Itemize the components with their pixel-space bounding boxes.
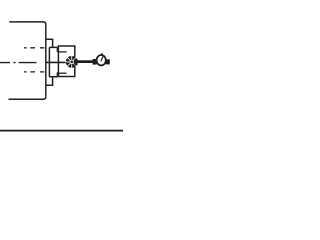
headstock front face bbox=[45, 24, 47, 97]
mandrel hub bbox=[75, 59, 78, 66]
chuck jaw star wheel bbox=[65, 55, 77, 68]
spindle flange bottom bbox=[46, 77, 53, 85]
hidden bore line upper bbox=[24, 47, 44, 49]
ground line bbox=[0, 130, 123, 132]
spindle flange top bbox=[46, 39, 53, 47]
centerline dash-dot bbox=[0, 62, 37, 64]
hidden bore line lower bbox=[24, 71, 44, 73]
spindle nose top line bbox=[57, 51, 66, 53]
dial top stub bbox=[101, 53, 102, 55]
spindle nose bottom line bbox=[57, 72, 66, 74]
chuck body bbox=[58, 46, 74, 77]
chuck backplate top bbox=[49, 47, 57, 52]
indicator mount block bbox=[106, 59, 110, 64]
mandrel axis solid segment bbox=[46, 61, 68, 63]
chuck backplate left edge bbox=[48, 47, 50, 76]
dial indicator body bbox=[97, 55, 106, 65]
chuck backplate bottom bbox=[49, 72, 57, 76]
indicator contact block bbox=[93, 59, 97, 65]
dial needle bbox=[101, 56, 103, 61]
headstock bottom line bbox=[9, 97, 46, 100]
test mandrel bar bbox=[77, 60, 93, 63]
headstock top line bbox=[9, 22, 46, 25]
